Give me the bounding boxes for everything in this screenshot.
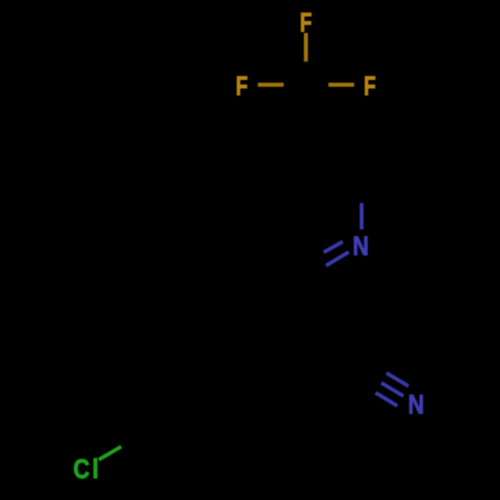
- nitrile triple bond line middle (blue half): [381, 383, 403, 396]
- bond C-F right (gold half): [328, 83, 354, 87]
- svg-text:N: N: [353, 232, 369, 261]
- svg-text:F: F: [364, 72, 376, 102]
- bond C2=N main line (blue half): [326, 252, 349, 266]
- svg-text:l: l: [92, 454, 99, 484]
- svg-text:C: C: [73, 454, 89, 484]
- bond C2=N inner line (blue half): [324, 242, 343, 253]
- svg-text:N: N: [408, 391, 424, 420]
- svg-text:F: F: [236, 72, 248, 102]
- bond C4-N ring vertical (blue half): [360, 203, 364, 229]
- bond C-F top (gold half): [304, 33, 308, 62]
- nitrile triple bond line top (blue half): [386, 373, 408, 386]
- svg-text:F: F: [300, 9, 312, 39]
- nitrile triple bond line bottom (blue half): [376, 393, 398, 406]
- bond C-F left (gold half): [258, 83, 284, 87]
- bond C-Cl (green half): [99, 447, 121, 460]
